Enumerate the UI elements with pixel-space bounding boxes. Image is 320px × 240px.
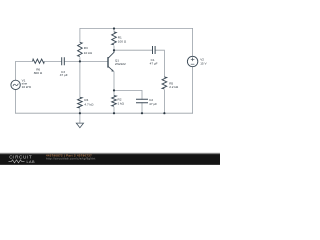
voltage source V1 (11, 78, 32, 89)
resistor R5 (162, 77, 179, 89)
resistor R4 (78, 97, 95, 108)
svg-text:1 kΩ: 1 kΩ (118, 102, 125, 106)
capacitor C3 (60, 57, 68, 77)
svg-text:LAB: LAB (27, 160, 35, 164)
svg-text:R3: R3 (84, 46, 88, 50)
wire V1 bottom lead (15, 90, 17, 114)
wire R2 bottom lead (113, 107, 115, 113)
resistor R6 (33, 59, 45, 75)
wire V1 top lead (16, 61, 33, 80)
node base junction (79, 60, 81, 62)
node ground rail C2 junction (141, 112, 143, 114)
resistor R2 (112, 96, 125, 107)
watermark url text (46, 157, 95, 161)
wire C2 bottom lead (141, 103, 143, 114)
svg-text:2.2 kΩ: 2.2 kΩ (169, 85, 179, 89)
wire R4 top lead (79, 61, 81, 97)
voltage source V2 (187, 56, 207, 66)
svg-text:10 kHz: 10 kHz (22, 85, 32, 89)
wire right column V2 bottom lead (192, 67, 194, 114)
svg-text:2N2222: 2N2222 (115, 62, 126, 66)
svg-text:47 µF: 47 µF (60, 73, 68, 77)
wire emitter down (113, 72, 115, 91)
svg-text:47 µF: 47 µF (150, 61, 158, 65)
wire right column V2 top lead (192, 29, 194, 57)
watermark logo LAB (27, 160, 35, 164)
node junction top rail / R1 (113, 27, 115, 29)
svg-text:10 kΩ: 10 kΩ (84, 51, 93, 55)
wire R5 bottom lead (163, 90, 165, 113)
node ground rail R2 junction (113, 112, 115, 114)
wire C3 to base node to Q1 base (64, 60, 108, 62)
wire R3 bottom lead (79, 58, 81, 62)
svg-text:15 V: 15 V (200, 61, 207, 65)
watermark logo CIRCUIT (9, 155, 32, 160)
resistor R3 (78, 42, 93, 56)
watermark logo resistor zigzag (9, 160, 25, 163)
wire R4 bottom lead (79, 109, 81, 113)
wire C1 to output corner (155, 50, 164, 77)
svg-text:800 Ω: 800 Ω (34, 71, 43, 75)
transistor Q1 (108, 50, 126, 72)
wire emitter branch to C2 (114, 90, 142, 99)
ground (76, 123, 83, 128)
wire bottom ground rail (16, 112, 193, 114)
node collector junction (113, 49, 115, 51)
svg-text:http://circuitlab.com/c/s/tg/9: http://circuitlab.com/c/s/tg/9gNnt (46, 157, 95, 161)
watermark id text (46, 154, 92, 158)
svg-text:R4: R4 (84, 98, 88, 102)
svg-text:100 Ω: 100 Ω (118, 40, 127, 44)
wire R3 top lead (79, 29, 81, 43)
svg-text:47 µF: 47 µF (149, 102, 157, 106)
watermark bar (0, 152, 220, 165)
wire ground stub (79, 113, 81, 123)
wire collector node to C1 (114, 49, 153, 51)
capacitor C2 (136, 98, 157, 106)
wire R6 to C3 (45, 60, 61, 62)
node ground rail R4 junction (79, 112, 81, 114)
node emitter branch junction (113, 89, 115, 91)
wire R1 top lead (113, 29, 115, 33)
svg-text:4.7 kΩ: 4.7 kΩ (84, 103, 94, 107)
resistor R1 (112, 32, 127, 45)
wire top rail VCC (80, 28, 193, 30)
node ground rail R5 junction (163, 112, 165, 114)
wire R1 bottom lead (113, 46, 115, 50)
wire R2 top lead (113, 90, 115, 95)
capacitor C1 (150, 46, 158, 65)
